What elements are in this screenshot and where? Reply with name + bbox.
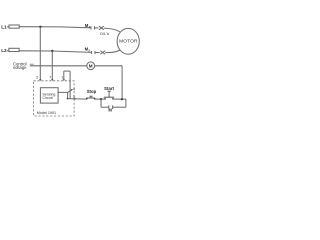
- wire jog terminal 1: [64, 70, 70, 72]
- pushbutton PB1 stop bar: [86, 97, 95, 99]
- svg-text:Circuit: Circuit: [42, 96, 52, 100]
- wire holding row right: [113, 106, 126, 108]
- relay lever arrowhead: [71, 89, 73, 91]
- overload heater OL2: [100, 51, 105, 54]
- node junction dot on L2: [51, 50, 53, 52]
- wire M1 to OL1: [95, 27, 99, 29]
- wire vertical L1 to terminal 2: [39, 27, 41, 80]
- wire control line left: [30, 65, 87, 67]
- wire stop to start: [95, 98, 106, 100]
- pushbutton PB1 stop actuator: [89, 95, 92, 97]
- svg-text:voltage: voltage: [13, 65, 27, 70]
- svg-text:M: M: [108, 108, 112, 113]
- svg-text:M: M: [89, 63, 93, 68]
- fuse F1: [9, 25, 19, 28]
- sensing unit dashed enclosure: [34, 81, 75, 116]
- pushbutton PB1 stop terminals: [86, 98, 88, 100]
- wire holding row left: [101, 106, 109, 108]
- svg-text:L1: L1: [1, 24, 7, 29]
- relay output stub: [58, 91, 68, 93]
- pushbutton PB2 start actuator: [107, 90, 110, 92]
- node pushbutton start terminal dots: [104, 98, 106, 100]
- svg-text:1: 1: [61, 76, 63, 80]
- pushbutton PB2 start bar: [104, 96, 114, 98]
- node junction dot on L1: [39, 26, 41, 28]
- motor MOT1: [117, 28, 139, 54]
- wire L2 line: [19, 51, 91, 53]
- svg-text:MOTOR: MOTOR: [119, 38, 138, 44]
- wire branch down to holding row: [100, 99, 102, 107]
- coil M: [87, 62, 95, 70]
- svg-text:L2: L2: [1, 48, 7, 53]
- svg-text:O/L's: O/L's: [100, 31, 109, 36]
- terminal arrow 1: [63, 79, 65, 81]
- wire control leader tick: [30, 63, 34, 65]
- wire vertical to relay common: [69, 71, 71, 99]
- node dot terminal 3: [74, 98, 76, 100]
- wire to stop button: [68, 98, 87, 101]
- wire OL1 to motor: [104, 28, 120, 32]
- relay lever arm: [68, 90, 72, 93]
- terminal arrow 7: [51, 79, 53, 81]
- wire control line right: [95, 65, 123, 67]
- wire vertical coil return: [121, 66, 123, 99]
- svg-text:7: 7: [49, 75, 51, 79]
- wire terminal 1 stub: [63, 71, 65, 80]
- wire OL2 to motor: [105, 50, 120, 53]
- wire M2 to OL2: [95, 52, 100, 54]
- svg-text:2: 2: [36, 75, 38, 79]
- sensing circuit box: [40, 88, 58, 103]
- pushbutton PB2 start terminals: [104, 98, 106, 99]
- svg-text:4: 4: [73, 88, 75, 92]
- node dot coil return junction: [121, 98, 123, 100]
- wire start to right rail: [113, 98, 126, 100]
- wire L2 stub: [7, 50, 8, 52]
- wire L1 line: [19, 27, 91, 28]
- wire right rail down: [125, 99, 127, 107]
- contact M holding: [108, 105, 110, 109]
- wire L1 stub: [7, 26, 9, 28]
- contact M1: [90, 26, 92, 29]
- node dot stop-start junction: [100, 98, 102, 100]
- wire vertical L2 to terminal 7: [51, 51, 53, 80]
- overload heater OL1: [99, 26, 104, 29]
- wire relay common down: [67, 92, 69, 98]
- node dot relay out: [67, 98, 69, 100]
- svg-text:Model 1901: Model 1901: [37, 111, 56, 115]
- svg-text:Stop: Stop: [87, 89, 97, 94]
- fuse F2: [9, 48, 19, 51]
- node pushbutton stop terminal dots: [86, 98, 88, 100]
- svg-text:Start: Start: [104, 86, 115, 91]
- contact M2: [90, 51, 92, 54]
- terminal arrow 2: [39, 79, 41, 81]
